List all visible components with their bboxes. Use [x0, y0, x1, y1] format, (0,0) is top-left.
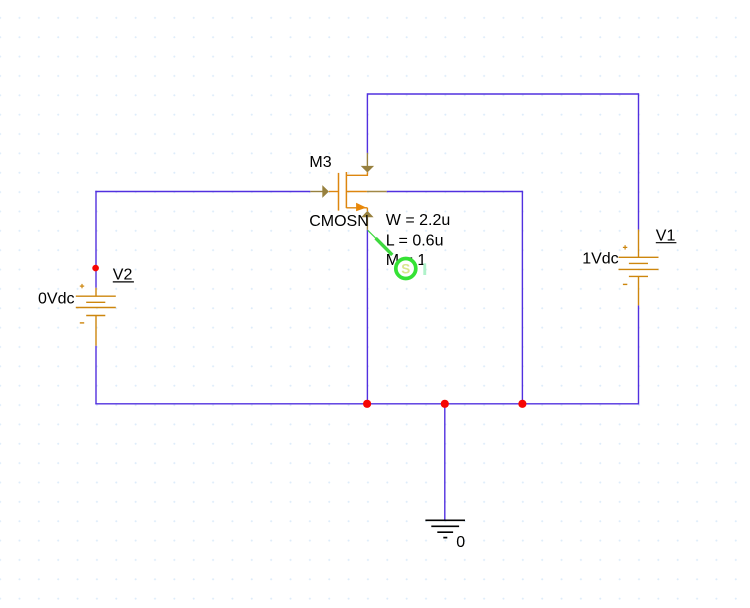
svg-text:CMOSN: CMOSN: [309, 213, 369, 230]
svg-text:W = 2.2u: W = 2.2u: [386, 212, 450, 229]
V1 reference label: [656, 227, 677, 244]
junction node ground/bottom rail: [441, 400, 449, 408]
transistor M3 gate pin: [310, 185, 329, 198]
cursor green circle with S: [396, 259, 416, 279]
svg-text:0Vdc: 0Vdc: [38, 291, 74, 308]
M3 parameter L label: [386, 232, 444, 249]
svg-text:V2: V2: [113, 267, 133, 284]
wire drain riser: [366, 93, 368, 153]
source V1 battery: [619, 230, 659, 306]
junction dot on V2 wire: [92, 265, 99, 272]
svg-text:1Vdc: 1Vdc: [582, 251, 618, 268]
wire right riser lower (V1 minus to bottom rail): [638, 305, 640, 404]
wire left riser (gate wire to V2 plus): [95, 191, 97, 288]
V2 minus sign: [80, 322, 84, 324]
text caret: [423, 263, 426, 275]
V1 plus sign: [623, 245, 627, 249]
wire gate (V2 top to M3 gate): [95, 191, 310, 193]
svg-text:M3: M3: [309, 154, 331, 171]
wire V2 bottom riser: [95, 346, 97, 404]
transistor M3 bulk pin: [367, 191, 387, 193]
V1 value label 1Vdc: [582, 251, 618, 268]
transistor M3 body: [329, 172, 368, 211]
wire bulk riser: [521, 191, 523, 404]
svg-text:L = 0.6u: L = 0.6u: [386, 232, 444, 249]
junction node source/bottom rail: [363, 400, 371, 408]
M3 parameter W label: [386, 212, 450, 229]
wire source riser: [366, 230, 368, 404]
V2 reference label: [113, 267, 134, 284]
wire right riser upper (top rail to V1 plus): [638, 93, 640, 229]
transistor M3 substrate arrow: [356, 203, 366, 211]
V2 value label 0Vdc: [38, 291, 74, 308]
V2 plus sign: [80, 284, 84, 288]
transistor M3 drain pin: [361, 153, 374, 173]
source V2 battery: [76, 288, 116, 346]
transistor M3 reference label: [309, 154, 331, 171]
ground symbol 0: [425, 520, 465, 537]
M3 parameter M label: [386, 252, 427, 269]
transistor M3 model label CMOSN: [309, 213, 369, 230]
V1 minus sign: [623, 283, 627, 285]
wire top rail: [367, 93, 638, 95]
wire bottom rail: [95, 403, 638, 405]
ground net label 0: [456, 534, 465, 551]
wire bulk horizontal: [387, 191, 523, 193]
cursor green probe line: [368, 230, 393, 255]
wire ground stem: [444, 404, 446, 520]
junction node bulk/bottom rail: [518, 400, 526, 408]
transistor M3 source pin: [361, 211, 373, 230]
svg-text:S: S: [401, 261, 410, 276]
svg-text:0: 0: [456, 534, 465, 551]
svg-text:V1: V1: [656, 227, 676, 244]
